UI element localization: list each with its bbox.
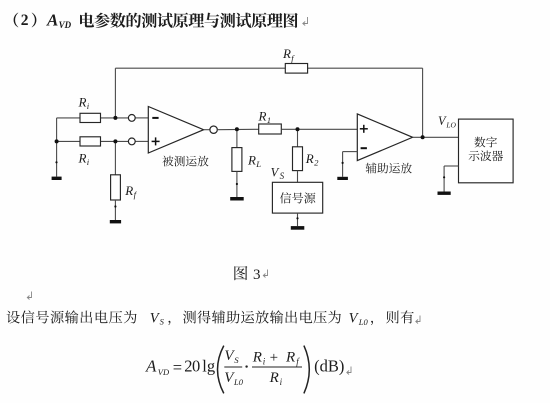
svg-text:R: R xyxy=(247,152,256,167)
svg-text:LO: LO xyxy=(445,120,456,129)
svg-text:R: R xyxy=(285,350,295,366)
svg-text:+: + xyxy=(270,350,278,366)
svg-text:S: S xyxy=(234,355,239,365)
svg-text:S: S xyxy=(280,171,285,181)
svg-text:(dB): (dB) xyxy=(314,357,344,376)
svg-text:R: R xyxy=(305,151,314,166)
svg-text:lg: lg xyxy=(202,356,215,375)
svg-text:R: R xyxy=(269,370,279,386)
svg-text:0: 0 xyxy=(192,356,200,375)
svg-text:R: R xyxy=(252,350,262,366)
svg-text:L0: L0 xyxy=(358,317,369,327)
svg-text:A: A xyxy=(145,357,157,376)
svg-text:3: 3 xyxy=(253,267,261,283)
svg-text:1: 1 xyxy=(267,115,271,125)
svg-text:VD: VD xyxy=(158,367,170,377)
svg-text:S: S xyxy=(160,317,165,327)
svg-text:L0: L0 xyxy=(233,377,244,387)
svg-text:A: A xyxy=(46,11,58,30)
svg-text:2: 2 xyxy=(314,158,319,168)
svg-text:=: = xyxy=(173,358,182,377)
svg-text:R: R xyxy=(282,46,291,61)
svg-text:L: L xyxy=(255,159,261,169)
svg-text:2: 2 xyxy=(21,12,29,29)
svg-text:R: R xyxy=(78,95,87,110)
svg-text:R: R xyxy=(124,183,133,198)
svg-text:R: R xyxy=(258,108,267,123)
svg-text:R: R xyxy=(78,150,87,165)
svg-text:VD: VD xyxy=(59,20,72,30)
